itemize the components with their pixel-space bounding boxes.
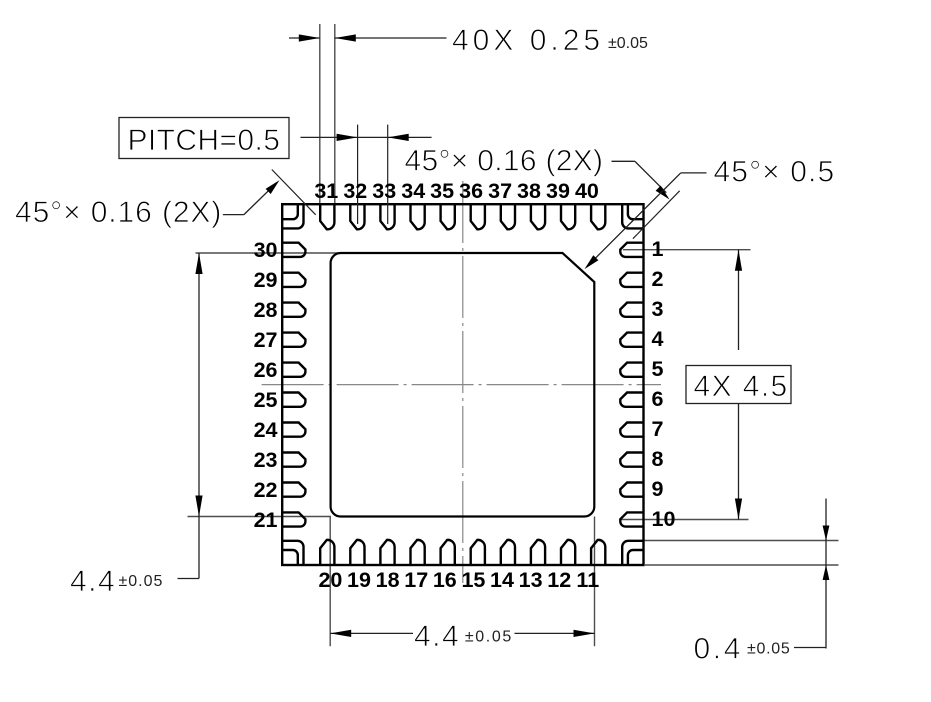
arrow pitch left [337,134,358,141]
svg-text:26: 26 [254,358,278,382]
svg-text:4.4: 4.4 [414,620,460,653]
pad pin 12 (bottom row) [561,540,575,565]
pad pin 34 (top row) [411,204,425,229]
4X 4.5 box [686,366,791,404]
pad pin 11 (bottom row) [591,540,605,565]
svg-text:37: 37 [488,179,512,203]
pad pin 26 (left column) [282,363,305,377]
pad pin 24 (left column) [282,423,305,437]
arrow 4.4 bottom left [330,630,351,637]
leader arrow 45x0.16 left [266,180,280,194]
pad pin 8 (right column) [620,453,643,467]
svg-text:22: 22 [254,478,278,502]
svg-text:38: 38 [517,179,541,203]
leader 45x0.16 right diagonal [635,161,666,192]
pitch dimension line [301,136,432,138]
pad pin 22 (left column) [282,483,305,497]
extension line pin 10 (right) [620,519,749,521]
corner pad top-left outer profile [282,204,303,228]
svg-text:±0.05: ±0.05 [747,641,790,658]
leader 45x0.5 horizontal [681,172,707,174]
vertical centerline [462,181,464,583]
svg-text:27: 27 [254,328,278,352]
corner pad top-left inner profile [282,204,298,219]
pad pin 23 (left column) [282,453,305,467]
svg-text:17: 17 [404,568,428,592]
pad pin 29 (left column) [282,273,305,287]
arrow 4X 4.5 bottom [735,499,742,520]
pad pin 33 (top row) [380,204,394,229]
svg-text:19: 19 [347,568,371,592]
dimension line 40X 0.25 left segment [289,37,320,39]
svg-text:±0.05: ±0.05 [608,35,648,52]
leader 45x0.16 left diagonal [244,183,276,214]
arrow 4X 4.5 top [735,250,742,271]
svg-text:16: 16 [433,568,457,592]
pad pin 20 (bottom row) [320,540,334,565]
svg-text:45°× 0.16 (2X): 45°× 0.16 (2X) [15,196,222,229]
svg-text:21: 21 [254,508,278,532]
svg-text:30: 30 [254,238,278,262]
pad pin 1 (right column) [620,243,643,257]
arrow 0.4 lower [823,565,830,580]
arrow 0.4 upper [823,526,830,541]
extension line pad-31 left edge [319,24,321,203]
chamfer indicator line top-left corner [272,170,316,215]
pad pin 6 (right column) [620,393,643,407]
svg-text:18: 18 [376,568,400,592]
svg-text:32: 32 [343,179,367,203]
exposed thermal pad with chamfered pin-1 corner [331,253,595,517]
extension line exposed pad bottom (left) [188,516,332,518]
svg-text:9: 9 [652,477,664,501]
pad pin 7 (right column) [620,423,643,437]
corner pad bottom-right outer profile [622,541,643,565]
dimension line 0.4 vertical [825,499,827,649]
leader 45x0.16 left horizontal [223,214,244,216]
pad pin 19 (bottom row) [350,540,364,565]
extension line pad-33 center [387,125,389,224]
svg-text:8: 8 [652,447,664,471]
svg-text:10: 10 [652,507,676,531]
svg-text:35: 35 [430,179,454,203]
svg-text:±0.05: ±0.05 [119,573,164,590]
svg-text:7: 7 [652,417,664,441]
svg-text:23: 23 [254,448,278,472]
arrow 4.4 bottom right [574,630,595,637]
dimension line 4.4 vertical [198,253,200,579]
svg-text:45°× 0.5: 45°× 0.5 [714,156,836,189]
chamfer indicator line top-right corner [633,191,680,239]
extension line pin 1 (right) [623,249,751,251]
pad pin 36 (top row) [471,204,485,229]
extension line exposed pad top (left) [196,252,342,254]
pad pin 38 (top row) [531,204,545,229]
svg-text:2: 2 [652,267,664,291]
svg-text:12: 12 [547,568,571,592]
svg-text:6: 6 [652,387,664,411]
svg-text:39: 39 [546,179,570,203]
dimension line 4X 4.5 upper segment [738,250,740,350]
leader 0.4 text [794,647,826,649]
PITCH=0.5 box [119,118,289,159]
pad pin 13 (bottom row) [531,540,545,565]
svg-text:0.4: 0.4 [694,633,744,666]
svg-text:15: 15 [461,568,485,592]
extension line bottom pad tip [644,540,839,542]
svg-text:24: 24 [254,418,278,442]
leader arrow 45x0.16 right [656,186,670,200]
pad pin 4 (right column) [620,333,643,347]
pad pin 27 (left column) [282,333,305,347]
pad pin 3 (right column) [620,303,643,317]
extension line package bottom edge [645,564,839,566]
pad pin 30 (left column) [282,243,305,257]
svg-text:4: 4 [652,327,664,351]
svg-text:31: 31 [314,179,338,203]
pad pin 17 (bottom row) [411,540,425,565]
svg-text:±0.05: ±0.05 [465,629,513,646]
svg-text:40X 0.25: 40X 0.25 [452,24,604,57]
leader 45x0.5 diagonal [588,173,681,266]
pad pin 21 (left column) [282,512,305,526]
arrow 4.4 vertical top [195,253,202,274]
svg-text:25: 25 [254,388,278,412]
pad pin 10 (right column) [620,512,643,526]
pad pin 40 (top row) [591,204,605,229]
horizontal centerline [262,384,661,386]
pad pin 5 (right column) [620,363,643,377]
dimension line 4.4 bottom left segment [330,632,413,634]
svg-text:40: 40 [575,179,599,203]
extension line pad-32 center [357,125,359,224]
corner pad bottom-left inner profile [282,550,298,565]
pad pin 31 (top row) [320,204,334,229]
svg-text:33: 33 [372,179,396,203]
svg-text:14: 14 [490,568,514,592]
svg-text:4X 4.5: 4X 4.5 [694,370,789,403]
pad pin 16 (bottom row) [441,540,455,565]
corner pad bottom-right inner profile [628,550,644,565]
arrow 40X 0.25 right [335,34,356,41]
arrow pitch right [388,134,409,141]
pad pin 15 (bottom row) [471,540,485,565]
svg-text:PITCH=0.5: PITCH=0.5 [128,124,281,157]
extension line exposed pad left (bottom) [329,517,331,647]
leader arrow 45x0.5 [585,255,599,269]
pad pin 32 (top row) [350,204,364,229]
svg-text:34: 34 [401,179,425,203]
svg-text:3: 3 [652,297,664,321]
corner pad bottom-left outer profile [282,541,303,565]
svg-text:29: 29 [254,268,278,292]
pad pin 28 (left column) [282,303,305,317]
arrow 4.4 vertical bottom [195,496,202,517]
svg-text:13: 13 [519,568,543,592]
extension line pad-31 right edge [334,24,336,203]
svg-text:1: 1 [652,237,664,261]
pad pin 2 (right column) [620,273,643,287]
svg-text:36: 36 [459,179,483,203]
svg-text:20: 20 [318,568,342,592]
arrow 40X 0.25 left [299,34,320,41]
svg-text:11: 11 [576,568,599,592]
pad pin 39 (top row) [561,204,575,229]
svg-text:4.4: 4.4 [70,565,116,598]
extension line exposed pad right (bottom) [594,517,596,647]
svg-text:28: 28 [254,298,278,322]
leader 45x0.16 right horizontal [612,160,635,162]
dimension line 4X 4.5 lower segment [738,404,740,520]
svg-text:45°× 0.16 (2X): 45°× 0.16 (2X) [405,145,604,178]
pad pin 37 (top row) [501,204,515,229]
pad pin 35 (top row) [441,204,455,229]
pad pin 9 (right column) [620,483,643,497]
dimension line 4.4 bottom right segment [515,632,595,634]
pad pin 18 (bottom row) [380,540,394,565]
dimension line 40X 0.25 right segment [335,37,447,39]
corner pad top-right inner profile [628,204,644,219]
leader 4.4 left text [178,578,200,580]
pad pin 14 (bottom row) [501,540,515,565]
svg-text:5: 5 [652,357,664,381]
pad pin 25 (left column) [282,393,305,407]
corner pad top-right outer profile [622,204,643,228]
QFN package body outline [282,204,643,565]
